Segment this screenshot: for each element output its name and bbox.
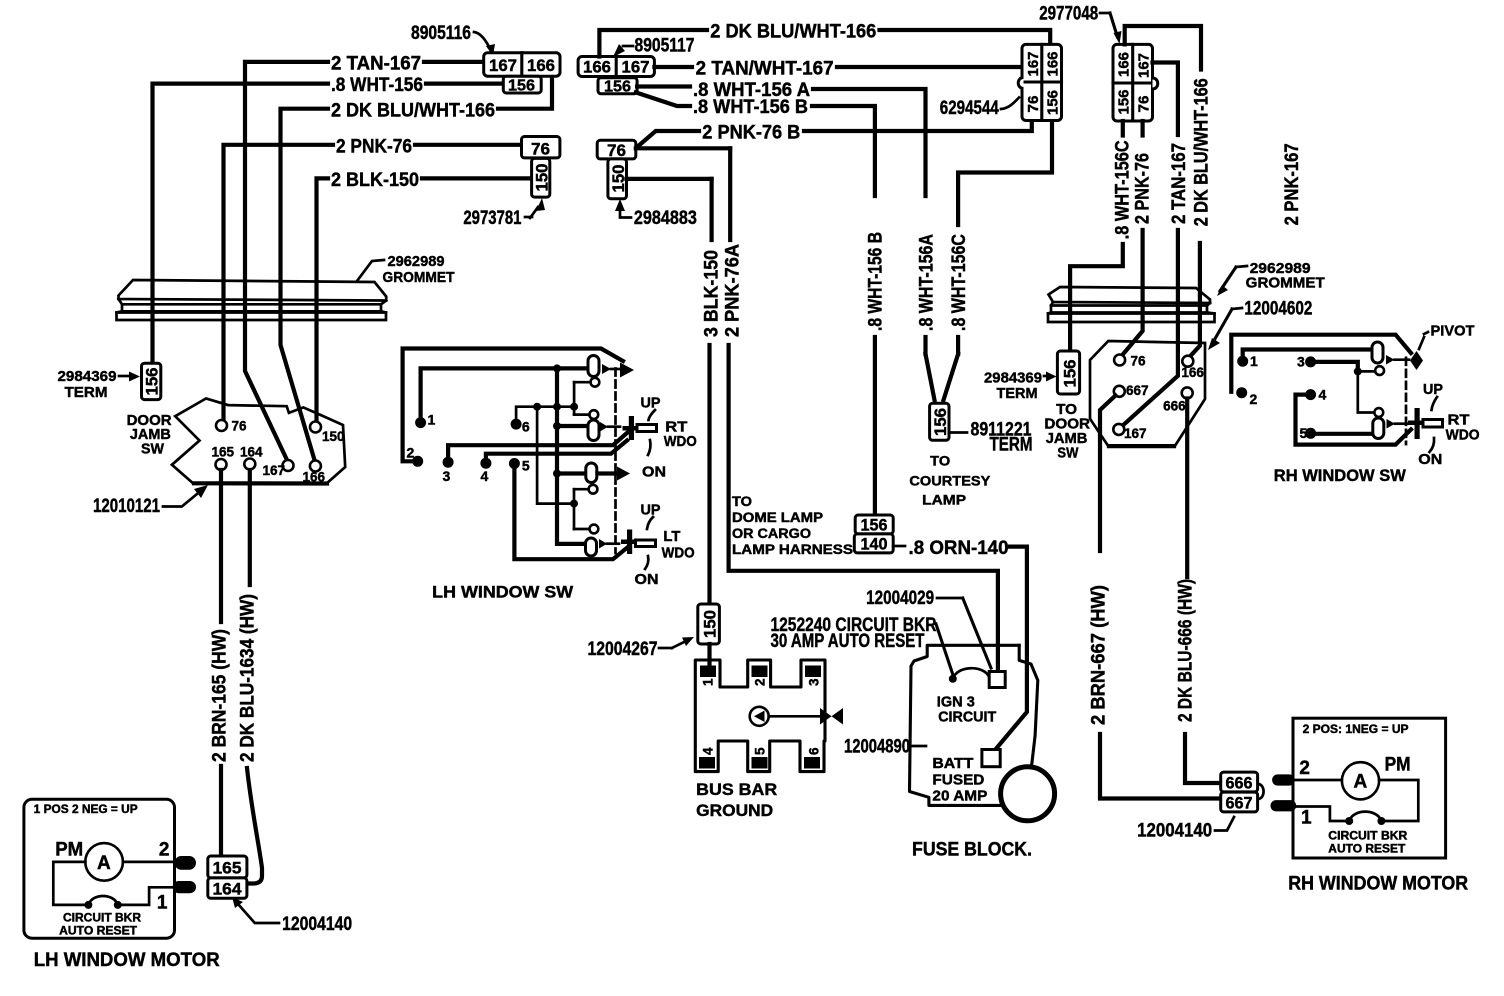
svg-text:2 TAN/WHT-167: 2 TAN/WHT-167 xyxy=(696,59,834,80)
svg-text:8905116: 8905116 xyxy=(411,23,471,44)
LH window motor box xyxy=(24,799,175,938)
svg-text:LAMP HARNESS: LAMP HARNESS xyxy=(732,542,853,557)
label PIVOT xyxy=(1419,323,1475,350)
label UP (RT) xyxy=(641,395,661,421)
wire 3 BLK-150 vertical xyxy=(627,179,712,604)
svg-text:2984369: 2984369 xyxy=(58,368,117,385)
svg-text:8905117: 8905117 xyxy=(635,36,695,57)
svg-text:A: A xyxy=(1354,772,1368,793)
svg-text:666: 666 xyxy=(1163,399,1186,414)
svg-text:2 PNK-76 B: 2 PNK-76 B xyxy=(702,122,800,143)
wire .8 WHT-156C lower xyxy=(956,337,960,354)
svg-text:.8 WHT-156C: .8 WHT-156C xyxy=(949,234,970,331)
svg-text:76: 76 xyxy=(531,140,550,159)
wire 2 DK BLU/WHT-166 label line xyxy=(281,76,553,460)
wire .8 WHT-156 label line xyxy=(153,84,504,363)
door jamb switch RH body xyxy=(1090,341,1205,446)
pin 2 (LH sw) xyxy=(407,445,424,467)
node junction pin6 row crossing xyxy=(553,403,561,411)
pin 1 (RH sw) xyxy=(1237,350,1371,370)
wire 2 BRN-165 from pin 165 xyxy=(219,470,223,856)
dashed travel line (LH sw) xyxy=(614,369,617,554)
wire 166 cell to right drop xyxy=(1125,26,1201,70)
node junction RT row xyxy=(553,422,561,430)
svg-text:2973781: 2973781 xyxy=(463,208,521,229)
label BUS BAR GROUND xyxy=(696,780,777,820)
svg-text:2 TAN-167: 2 TAN-167 xyxy=(1169,143,1190,224)
svg-text:76: 76 xyxy=(607,141,626,160)
svg-text:2962989: 2962989 xyxy=(388,253,445,270)
svg-text:3: 3 xyxy=(1297,354,1305,370)
svg-text:WDO: WDO xyxy=(664,433,697,450)
svg-text:166: 166 xyxy=(1116,52,1133,77)
connector terminal 150 (left, vertical) xyxy=(532,158,552,197)
svg-text:2 POS: 1NEG = UP: 2 POS: 1NEG = UP xyxy=(1303,724,1409,736)
svg-text:CIRCUIT: CIRCUIT xyxy=(938,709,996,726)
svg-text:OR CARGO: OR CARGO xyxy=(732,526,811,541)
label UP (RH) xyxy=(1423,381,1443,410)
switch small arrow 1 (RH) xyxy=(1386,355,1409,365)
svg-text:2 BRN-165 (HW): 2 BRN-165 (HW) xyxy=(210,629,231,762)
svg-text:4: 4 xyxy=(481,468,489,484)
wire 156 cell drop xyxy=(1121,121,1125,136)
svg-text:12010121: 12010121 xyxy=(93,496,160,517)
svg-text:2: 2 xyxy=(159,840,170,861)
svg-text:.8 WHT-156: .8 WHT-156 xyxy=(331,75,423,96)
svg-text:TO: TO xyxy=(732,494,752,509)
label 2973781 xyxy=(463,198,545,229)
svg-text:76: 76 xyxy=(1131,354,1147,369)
contact circle c2 xyxy=(574,410,598,419)
label UP (LT) xyxy=(641,502,661,530)
wire 150 box to bus bar xyxy=(707,644,711,664)
label DOOR JAMB SW (left) xyxy=(127,412,172,458)
connector terminal 76 (left) xyxy=(522,137,560,159)
door jamb switch LH body xyxy=(172,399,345,484)
label 2962989 GROMMET (right) xyxy=(1217,260,1325,296)
wire 2 BRN-667 from pin 667 xyxy=(1100,396,1221,799)
label 12004029 xyxy=(866,588,991,668)
label 12004140 (LH) xyxy=(232,897,352,935)
connector terminal 156 (middle) xyxy=(598,78,637,96)
svg-text:12004602: 12004602 xyxy=(1244,299,1312,320)
connector terminal 165 xyxy=(208,856,247,878)
ground symbol (bus bar) xyxy=(750,707,843,726)
svg-text:TERM: TERM xyxy=(990,435,1033,456)
lever LT WDO xyxy=(621,530,656,555)
svg-text:165: 165 xyxy=(212,445,235,460)
connector terminal 667 xyxy=(1221,792,1258,812)
svg-text:GROMMET: GROMMET xyxy=(383,269,455,286)
svg-text:165: 165 xyxy=(213,859,242,878)
contact circle c4 xyxy=(574,525,598,534)
node junction pin1 row xyxy=(553,364,561,372)
circuit breaker IGN3 xyxy=(949,668,1005,687)
switch contact capsule 2 (RH) xyxy=(1373,418,1384,439)
switch small arrow 2 (RH) xyxy=(1387,419,1409,429)
svg-text:1: 1 xyxy=(157,893,168,914)
svg-text:1: 1 xyxy=(701,678,716,686)
svg-text:150: 150 xyxy=(322,429,345,444)
fuse block body xyxy=(910,645,1020,805)
wire 2 PNK-76A vertical xyxy=(636,148,998,668)
wire ON row arrow xyxy=(598,467,631,481)
svg-text:667: 667 xyxy=(1226,794,1253,813)
svg-text:.8 WHT-156 B: .8 WHT-156 B xyxy=(866,232,887,331)
svg-text:150: 150 xyxy=(701,610,720,638)
svg-text:156: 156 xyxy=(1116,90,1133,115)
wire 2 TAN/WHT-167 run xyxy=(654,65,1022,69)
svg-text:666: 666 xyxy=(1226,774,1253,793)
connector 2977048 body xyxy=(1113,44,1158,121)
circuit breaker (LH motor) xyxy=(84,896,121,909)
svg-text:4: 4 xyxy=(1319,387,1327,403)
wire 2 DK BLU/WHT-166 to pin 166 xyxy=(1189,243,1200,358)
LH switch outer loop wire xyxy=(403,349,623,462)
svg-text:SW: SW xyxy=(141,441,165,458)
connector terminal 140 (dome lamp) xyxy=(854,534,893,554)
label 2977048 xyxy=(1039,4,1121,44)
label TO COURTESY LAMP xyxy=(909,453,991,508)
svg-text:BUS BAR: BUS BAR xyxy=(696,780,777,799)
label 12004602 xyxy=(1208,299,1312,351)
svg-text:166: 166 xyxy=(527,56,555,75)
pin 76 (RH jamb) xyxy=(1114,354,1146,369)
svg-text:5: 5 xyxy=(753,747,768,755)
svg-text:166: 166 xyxy=(1045,52,1062,77)
svg-text:2: 2 xyxy=(1299,758,1310,779)
svg-text:76: 76 xyxy=(1025,96,1042,113)
motor armature A (LH) xyxy=(85,843,123,881)
wire 2 PNK-76 to pin 76 xyxy=(1122,230,1143,356)
bus bar terminal fill 4 xyxy=(699,757,715,769)
wire 167 cell to 2 TAN-167 drop xyxy=(1153,63,1178,136)
svg-text:156: 156 xyxy=(508,78,535,95)
label 2984369 TERM (left) xyxy=(58,368,141,401)
wire 2 DK BLU-666 from pin 666 xyxy=(1185,399,1221,784)
svg-text:164: 164 xyxy=(240,445,263,460)
svg-text:LH WINDOW SW: LH WINDOW SW xyxy=(432,583,574,602)
pin 5 (LH sw) xyxy=(509,458,628,560)
svg-text:76: 76 xyxy=(232,419,248,434)
svg-text:2: 2 xyxy=(753,678,768,686)
svg-text:166: 166 xyxy=(1181,365,1204,380)
svg-text:1: 1 xyxy=(428,412,436,428)
wire contact feed vertical c3-c4 xyxy=(573,489,576,529)
svg-text:UP: UP xyxy=(641,502,661,519)
label CIRCUIT BKR AUTO RESET (LH) xyxy=(59,913,142,938)
svg-text:WDO: WDO xyxy=(1446,427,1480,444)
svg-text:.8 WHT-156A: .8 WHT-156A xyxy=(917,234,938,331)
svg-text:1: 1 xyxy=(1301,808,1312,829)
wire .8 WHT-156C to door jamb xyxy=(1070,244,1123,351)
connector 6294544 body xyxy=(1018,44,1061,120)
svg-text:SW: SW xyxy=(1057,445,1079,462)
svg-text:TERM: TERM xyxy=(65,384,108,401)
wire motor internal (LH) xyxy=(53,862,174,905)
pin 167 (LH jamb) xyxy=(263,460,294,478)
svg-text:167: 167 xyxy=(1025,52,1042,77)
svg-text:WDO: WDO xyxy=(662,545,695,562)
connector terminals 167/166 (8905116) xyxy=(484,53,560,76)
door jamb switch LH bottom edge xyxy=(194,481,327,485)
wire 2 PNK-76 label line xyxy=(224,145,522,420)
svg-text:2 PNK-76: 2 PNK-76 xyxy=(1132,153,1153,224)
pin 1 (LH sw) xyxy=(415,368,586,428)
svg-text:2 PNK-167: 2 PNK-167 xyxy=(1282,143,1303,225)
grommet right (2962989) xyxy=(1048,287,1215,322)
connector hook (666/667) xyxy=(1258,784,1264,799)
svg-text:667: 667 xyxy=(1126,383,1149,398)
svg-text:2984883: 2984883 xyxy=(634,208,697,229)
connector terminal 150 (middle, vertical) xyxy=(608,159,628,199)
svg-text:5: 5 xyxy=(522,458,530,474)
label 2962989 GROMMET (left) xyxy=(357,253,455,286)
svg-text:RH WINDOW MOTOR: RH WINDOW MOTOR xyxy=(1288,874,1468,895)
svg-text:156: 156 xyxy=(861,516,888,535)
lever RT WDO xyxy=(623,416,657,440)
wire 2 TAN-167 label line xyxy=(245,62,484,460)
label TO DOOR JAMB SW (right) xyxy=(1044,401,1090,462)
wire 2 DK BLU/WHT-166 top run xyxy=(599,30,1050,57)
pin 666 (RH jamb) xyxy=(1163,387,1193,413)
label 12004890 xyxy=(844,737,926,758)
switch small arrow 2 xyxy=(600,422,620,432)
svg-text:2 BRN-667 (HW): 2 BRN-667 (HW) xyxy=(1089,585,1110,725)
pin 4 (RH sw) xyxy=(1296,387,1412,445)
terminal pill 2 (LH motor) xyxy=(175,856,197,870)
label IGN 3 CIRCUIT xyxy=(937,694,996,726)
wire .8 ORN-140 xyxy=(893,546,1027,750)
circuit breaker (RH motor) xyxy=(1345,812,1385,825)
svg-text:156: 156 xyxy=(931,408,950,436)
svg-text:2 DK BLU-1634 (HW): 2 DK BLU-1634 (HW) xyxy=(238,594,259,762)
svg-text:2: 2 xyxy=(1250,391,1258,407)
svg-text:DOME LAMP: DOME LAMP xyxy=(732,510,823,525)
svg-text:156: 156 xyxy=(1061,360,1080,388)
wire 2 BLK-150 label line xyxy=(317,178,532,421)
wire contact feed vertical c1-c2 xyxy=(573,382,576,414)
label RT WDO xyxy=(664,419,697,451)
pin 3 (RH sw) xyxy=(1297,354,1358,372)
svg-text:PM: PM xyxy=(1385,755,1411,776)
contact circle c3 xyxy=(574,485,597,494)
switch small arrow 4 xyxy=(599,539,619,549)
svg-text:TO: TO xyxy=(930,453,950,469)
svg-text:AUTO RESET: AUTO RESET xyxy=(59,926,137,938)
connector terminal 164 xyxy=(208,878,247,899)
connector terminal 156 (left) xyxy=(503,76,541,94)
svg-text:5: 5 xyxy=(1300,425,1308,441)
BATT terminal square xyxy=(982,750,1000,767)
svg-text:12004029: 12004029 xyxy=(866,588,934,609)
svg-text:3: 3 xyxy=(443,468,451,484)
pin 4 (LH sw) xyxy=(480,441,627,485)
svg-text:3 BLK-150: 3 BLK-150 xyxy=(702,250,723,337)
svg-text:12004267: 12004267 xyxy=(588,639,658,660)
pivot diamond (RH sw) xyxy=(1410,351,1423,370)
svg-text:166: 166 xyxy=(303,470,326,485)
svg-text:2984369: 2984369 xyxy=(984,370,1042,387)
svg-text:UP: UP xyxy=(1423,381,1443,398)
svg-text:6: 6 xyxy=(522,419,530,435)
svg-text:30 AMP AUTO RESET: 30 AMP AUTO RESET xyxy=(771,631,925,652)
svg-text:2 PNK-76: 2 PNK-76 xyxy=(336,136,412,157)
svg-text:6: 6 xyxy=(807,747,822,755)
svg-text:167: 167 xyxy=(622,58,650,77)
svg-text:.8 WHT-156C: .8 WHT-156C xyxy=(1113,140,1134,239)
switch contact capsule 3 xyxy=(586,463,597,483)
svg-text:12004140: 12004140 xyxy=(282,914,352,935)
label 8905116 xyxy=(411,23,495,56)
label RT WDO (RH) xyxy=(1446,412,1480,444)
svg-text:CIRCUIT BKR: CIRCUIT BKR xyxy=(63,913,142,925)
pin 6 (LH sw) xyxy=(511,407,575,435)
label 8905117 xyxy=(613,36,695,58)
svg-text:UP: UP xyxy=(641,395,661,412)
terminal pill 1 (LH motor) xyxy=(173,881,196,893)
node junction pin6 branch xyxy=(533,403,541,411)
svg-text:ON: ON xyxy=(1418,451,1442,468)
svg-text:RH WINDOW SW: RH WINDOW SW xyxy=(1274,466,1407,485)
svg-text:1: 1 xyxy=(1250,353,1258,369)
wire .8 WHT-156 B run xyxy=(636,92,875,515)
svg-text:2 DK BLU/WHT-166: 2 DK BLU/WHT-166 xyxy=(331,100,495,121)
connector terminal 156 (right door jamb, vertical) xyxy=(1057,351,1079,394)
switch small arrow 1 xyxy=(602,364,620,374)
connector terminal 156 (dome lamp) xyxy=(855,515,893,535)
svg-text:20 AMP: 20 AMP xyxy=(932,788,987,805)
svg-text:LT: LT xyxy=(663,528,680,545)
label BATT FUSED 20 AMP xyxy=(932,755,987,805)
svg-text:2 DK BLU/WHT-166: 2 DK BLU/WHT-166 xyxy=(710,22,876,43)
switch contact capsule 1 (RH) xyxy=(1372,342,1383,363)
svg-text:76: 76 xyxy=(1136,96,1153,113)
connector terminal 666 xyxy=(1221,772,1258,792)
svg-text:1 POS 2 NEG = UP: 1 POS 2 NEG = UP xyxy=(34,804,138,816)
svg-text:3: 3 xyxy=(807,678,822,686)
svg-text:COURTESY: COURTESY xyxy=(909,472,991,488)
svg-text:2 PNK-76A: 2 PNK-76A xyxy=(723,244,744,337)
label 12004267 xyxy=(588,637,695,660)
wire 2 TAN-167 to pin 167 xyxy=(1121,230,1178,428)
wire pin6 lower branch xyxy=(537,407,574,504)
label ON (LT) xyxy=(635,556,659,588)
svg-text:2 DK BLU-666 (HW): 2 DK BLU-666 (HW) xyxy=(1176,579,1197,722)
pin 2 (RH sw) xyxy=(1236,387,1257,407)
svg-text:GROMMET: GROMMET xyxy=(1246,275,1325,292)
svg-text:167: 167 xyxy=(489,56,517,75)
svg-text:156: 156 xyxy=(604,79,631,96)
svg-text:2 BLK-150: 2 BLK-150 xyxy=(331,170,419,191)
wire 2 DK BLU-1634 from pin 164 xyxy=(247,470,262,884)
contact circle c1 xyxy=(574,378,599,387)
grommet left (2962989) xyxy=(117,280,387,320)
svg-text:12004140: 12004140 xyxy=(1137,821,1212,842)
svg-text:156: 156 xyxy=(143,368,162,396)
pin 76 (LH jamb) xyxy=(216,419,247,434)
svg-text:LAMP: LAMP xyxy=(922,492,966,508)
svg-text:.8 WHT-156 B: .8 WHT-156 B xyxy=(693,97,808,118)
connector terminal 76 (middle) xyxy=(597,140,636,160)
wire .8 WHT-156C from connector xyxy=(958,121,1052,226)
svg-text:2 DK BLU/WHT-166: 2 DK BLU/WHT-166 xyxy=(1191,78,1212,226)
svg-text:BATT: BATT xyxy=(932,755,973,772)
fuse block circle xyxy=(1001,767,1055,821)
bus bar terminal fill 6 xyxy=(804,757,820,769)
label CIRCUIT BKR AUTO RESET (RH) xyxy=(1328,831,1408,856)
pin 150 (LH jamb) xyxy=(310,422,345,445)
svg-text:167: 167 xyxy=(263,463,286,478)
switch contact capsule 4 xyxy=(586,538,597,556)
svg-text:PIVOT: PIVOT xyxy=(1431,323,1475,340)
svg-text:2 TAN-167: 2 TAN-167 xyxy=(331,54,421,75)
svg-text:FUSE BLOCK.: FUSE BLOCK. xyxy=(912,840,1032,861)
svg-text:PM: PM xyxy=(55,840,83,861)
svg-text:.8 ORN-140: .8 ORN-140 xyxy=(909,538,1009,559)
label 1252240 CIRCUIT BKR 30 AMP AUTO RESET xyxy=(771,615,954,675)
label 8911221 TERM xyxy=(950,420,1033,456)
label 12004140 (RH) xyxy=(1137,817,1234,842)
svg-text:GROUND: GROUND xyxy=(696,801,773,820)
pin 167 (RH jamb) xyxy=(1113,424,1146,441)
door jamb switch RH bottom edge xyxy=(1109,444,1174,448)
bus bar terminal fill 3 xyxy=(805,666,821,678)
node junction (RH sw) xyxy=(1354,367,1362,375)
pin 164 (LH jamb) xyxy=(240,445,263,470)
switch contact capsule 1 xyxy=(588,356,599,377)
svg-text:LH WINDOW MOTOR: LH WINDOW MOTOR xyxy=(34,950,220,971)
bus bar terminal fill 2 xyxy=(752,666,768,678)
RH window motor box xyxy=(1293,718,1446,858)
svg-text:ON: ON xyxy=(635,571,659,588)
wire motor internal (RH) xyxy=(1295,780,1419,821)
pin 166 (RH jamb) xyxy=(1181,356,1204,380)
wire courtesy V-merge xyxy=(926,354,959,400)
bus bar body xyxy=(695,660,825,772)
svg-text:167: 167 xyxy=(1124,426,1147,441)
svg-text:166: 166 xyxy=(583,58,611,77)
wire junction down to rc2 xyxy=(1358,371,1374,412)
pin 166 (LH jamb) xyxy=(303,461,326,485)
LH switch pivot arrowhead xyxy=(620,363,634,378)
contact circle rc2 xyxy=(1374,408,1383,417)
svg-text:TERM: TERM xyxy=(997,385,1038,402)
wire .8 WHT-156 A run xyxy=(637,87,925,355)
label 6294544 xyxy=(940,98,1019,120)
lever RT WDO (RH) xyxy=(1408,408,1443,439)
label LT WDO xyxy=(662,528,695,562)
fuse block body right edge xyxy=(1019,645,1038,778)
connector terminals 166/167 (8905117) xyxy=(578,57,654,77)
label 12010121 xyxy=(93,485,208,517)
svg-text:A: A xyxy=(97,853,111,874)
svg-text:6294544: 6294544 xyxy=(940,98,999,119)
terminal pill 1 (RH motor) xyxy=(1271,800,1297,811)
pin 165 (LH jamb) xyxy=(212,445,235,471)
svg-text:150: 150 xyxy=(533,164,552,192)
node junction ON row xyxy=(553,470,561,478)
pin 5 (RH sw) xyxy=(1300,425,1373,441)
label ON (RT) xyxy=(642,440,666,481)
svg-text:CIRCUIT BKR: CIRCUIT BKR xyxy=(1328,831,1408,843)
svg-text:167: 167 xyxy=(1136,53,1153,78)
wire RT row xyxy=(557,424,587,428)
svg-text:2977048: 2977048 xyxy=(1039,4,1098,25)
wire 2 PNK-76 B run xyxy=(637,121,1032,148)
node junction c1c2 feed xyxy=(570,403,578,411)
node junction c3c4 feed xyxy=(570,500,578,508)
